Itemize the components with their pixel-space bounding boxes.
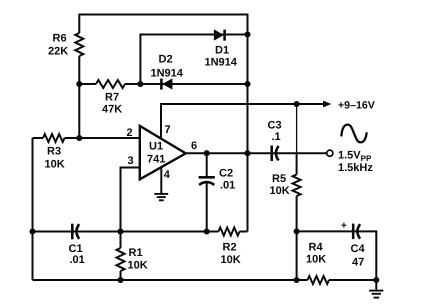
svg-text:R3: R3: [47, 145, 61, 157]
svg-text:R5: R5: [272, 173, 286, 185]
svg-text:C3: C3: [268, 120, 282, 132]
svg-text:R1: R1: [129, 247, 143, 259]
svg-text:47K: 47K: [102, 104, 122, 116]
svg-text:1N914: 1N914: [205, 57, 238, 69]
svg-text:C2: C2: [219, 168, 233, 180]
svg-text:1N914: 1N914: [151, 67, 184, 79]
svg-text:.1: .1: [272, 131, 281, 143]
svg-text:3: 3: [128, 155, 134, 167]
svg-text:2: 2: [127, 127, 133, 139]
svg-text:10K: 10K: [45, 159, 65, 171]
svg-text:+9–16V: +9–16V: [338, 100, 375, 112]
svg-text:R4: R4: [309, 242, 324, 254]
svg-text:6: 6: [191, 140, 197, 152]
svg-text:4: 4: [164, 169, 171, 181]
svg-text:C4: C4: [351, 243, 366, 255]
svg-text:R6: R6: [53, 33, 67, 45]
svg-text:+: +: [341, 221, 347, 232]
svg-text:741: 741: [147, 154, 165, 166]
svg-text:10K: 10K: [306, 254, 326, 266]
svg-text:7: 7: [165, 124, 171, 136]
svg-text:R7: R7: [105, 92, 119, 104]
svg-text:R2: R2: [223, 242, 237, 254]
svg-text:D2: D2: [159, 54, 173, 66]
svg-text:D1: D1: [215, 45, 229, 57]
svg-text:47: 47: [352, 257, 364, 269]
svg-text:10K: 10K: [221, 254, 241, 266]
svg-text:22K: 22K: [48, 46, 68, 58]
svg-text:10K: 10K: [128, 259, 148, 271]
svg-text:.01: .01: [220, 180, 235, 192]
svg-text:U1: U1: [149, 141, 163, 153]
svg-text:10K: 10K: [270, 185, 290, 197]
svg-text:1.5VPP: 1.5VPP: [338, 150, 372, 164]
svg-text:1.5kHz: 1.5kHz: [338, 162, 373, 174]
svg-text:.01: .01: [70, 254, 85, 266]
